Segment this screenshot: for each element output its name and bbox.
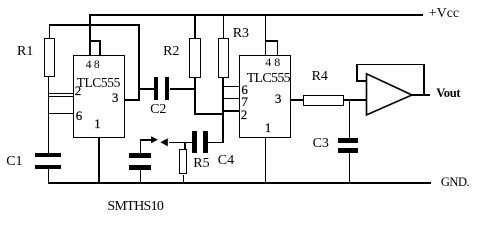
wire pin3 stub second (291, 99, 304, 101)
label C4 (218, 154, 234, 168)
wire pin2 rung second (223, 110, 240, 112)
wire feedback stub to op-amp (356, 80, 367, 82)
pin 4 8 labels first (86, 60, 100, 72)
pin 6 label first (76, 109, 83, 122)
wire pin6 rung second (223, 86, 240, 88)
wire R1 top lead (49, 24, 50, 38)
pin 1 label second (265, 121, 272, 134)
pin 3 label second (275, 92, 282, 105)
pin 6 label second (241, 83, 248, 96)
wire ladder vertical (222, 78, 224, 144)
wire sensor bottom lead (140, 170, 141, 183)
wire C2 left lead (139, 88, 154, 90)
resistor R4 (303, 95, 344, 106)
capacitor C3 (338, 138, 359, 143)
label TLC555 second (247, 72, 290, 86)
wire R5 bottom stub (183, 175, 185, 183)
label R4 (312, 70, 328, 84)
wire C3 top lead (349, 99, 351, 138)
wire pin4 vertical second (265, 14, 267, 55)
wire pin1 vertical second (265, 138, 266, 183)
timer U2 TLC555 second (239, 55, 291, 138)
wire low horizontal to ladder (194, 113, 223, 115)
label C1 (6, 155, 22, 169)
pin 1 label first (94, 117, 101, 130)
wire R4 to op-amp (344, 99, 367, 101)
label R3 (233, 27, 249, 41)
resistor R2 (189, 38, 201, 78)
wire R3 top lead (223, 14, 225, 39)
pin 3 label first (112, 91, 119, 104)
wire pin8 step horizontal first (89, 40, 101, 42)
resistor R3 (218, 38, 229, 78)
label C3 (313, 137, 329, 151)
wire C4 right lead (208, 142, 225, 144)
capacitor C4 (192, 131, 197, 153)
label C2 (150, 103, 166, 117)
wire pin4 vertical first (89, 14, 91, 55)
label TLC555 first (77, 76, 120, 90)
wire feedback left vertical (356, 64, 358, 82)
wire output lead (411, 94, 430, 96)
label SMTHS10 (107, 200, 163, 214)
wire feedback right vertical (423, 64, 425, 96)
wire pin7 rung second (223, 98, 240, 100)
node +Vcc label (429, 7, 459, 21)
wire C3 bottom lead (349, 153, 351, 183)
wire C2 right lead (170, 88, 195, 90)
capacitor C1 (35, 153, 62, 157)
wire arrow to C4 (169, 142, 192, 144)
label R1 (17, 45, 33, 59)
wire upper-left rail (49, 24, 140, 25)
pin 4 8 labels second (265, 56, 280, 68)
wire pin8 step vertical second (277, 40, 279, 55)
pin 2 label first (75, 84, 82, 97)
wire R2 bottom lead (194, 78, 196, 115)
node Vout label (436, 87, 460, 100)
wire pin8 step horizontal second (265, 40, 278, 42)
pin 2 label second (241, 108, 248, 121)
wire R5 top stub (184, 142, 186, 150)
wire pin1 vertical first (98, 138, 99, 183)
wire sensor bracket horizontal (140, 139, 152, 141)
wire pin6 stub (48, 113, 73, 115)
wire mid vertical rail to pin3 (138, 24, 140, 100)
wire pin2 stub upper (48, 93, 73, 94)
wire sensor bracket vertical (140, 139, 142, 153)
wire pin8 step vertical first (99, 40, 101, 55)
label R5 (193, 157, 209, 171)
resistor R1 (44, 38, 55, 77)
label R2 (163, 45, 179, 59)
timer U1 TLC555 first (73, 55, 126, 138)
pin 7 label second (241, 95, 248, 108)
wire feedback top (356, 64, 425, 66)
wire GND bottom rail (48, 182, 431, 184)
wire +Vcc top rail (89, 14, 423, 16)
node GND label (441, 176, 469, 189)
capacitor C2 (154, 77, 159, 100)
wire pin3 stub first (125, 99, 140, 101)
wire C1 bottom lead (48, 169, 49, 183)
wire R1 bottom to C1 (48, 77, 49, 154)
wire pin2 stub lower (48, 96, 73, 97)
resistor R5 (179, 149, 187, 174)
capacitor sensor SMTHS10 (129, 153, 152, 158)
wire R2 top lead (194, 14, 196, 39)
